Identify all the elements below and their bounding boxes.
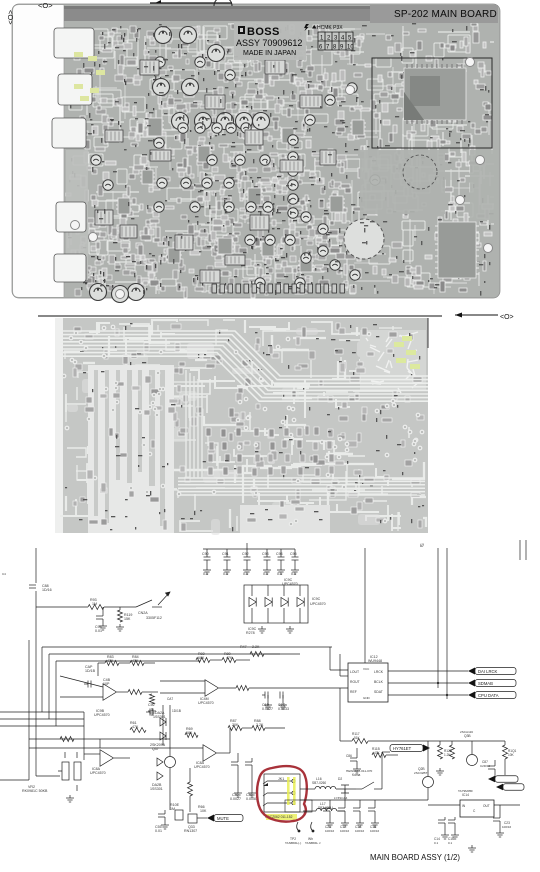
svg-text:1D/16: 1D/16 — [42, 588, 52, 592]
svg-text:0.1: 0.1 — [448, 841, 453, 845]
svg-text:TA79M05F: TA79M05F — [458, 789, 473, 793]
svg-text:C94: C94 — [276, 552, 283, 556]
svg-text:0.0033: 0.0033 — [278, 707, 289, 711]
svg-text:47K: 47K — [107, 659, 114, 663]
svg-text:0.01: 0.01 — [155, 829, 162, 833]
svg-text:OUT: OUT — [483, 804, 490, 808]
svg-text:1.2K: 1.2K — [444, 753, 451, 757]
svg-text:Q37: Q37 — [152, 747, 159, 751]
svg-text:100/16: 100/16 — [370, 829, 380, 833]
svg-text:10K: 10K — [508, 753, 515, 757]
svg-text:IC9C: IC9C — [312, 597, 321, 601]
svg-text:DAI LRCK: DAI LRCK — [478, 669, 498, 674]
svg-text:C2D/10: C2D/10 — [480, 764, 491, 768]
svg-text:1M: 1M — [170, 807, 175, 811]
svg-text:MAIN BOARD ASSY (1/2): MAIN BOARD ASSY (1/2) — [370, 853, 460, 862]
svg-text:UPC4570: UPC4570 — [198, 701, 214, 705]
svg-text:68K: 68K — [186, 731, 193, 735]
svg-text:68K: 68K — [198, 656, 205, 660]
svg-text:VCC: VCC — [363, 667, 370, 671]
svg-text:CA7: CA7 — [167, 697, 173, 701]
svg-text:LRCK: LRCK — [374, 670, 384, 674]
svg-text:20K: 20K — [232, 723, 239, 727]
svg-text:0.0050: 0.0050 — [246, 797, 257, 801]
svg-text:Kdma: Kdma — [352, 773, 361, 777]
svg-text:0.1: 0.1 — [291, 572, 296, 576]
svg-text:C4: C4 — [2, 572, 6, 576]
svg-text:C91: C91 — [222, 552, 229, 556]
svg-text:2SC32BT: 2SC32BT — [414, 771, 428, 775]
svg-text:C90: C90 — [202, 552, 209, 556]
svg-text:JK1: JK1 — [278, 777, 284, 781]
svg-text:100/16: 100/16 — [340, 829, 350, 833]
svg-text:C: C — [473, 809, 476, 813]
svg-text:0.0027: 0.0027 — [262, 707, 273, 711]
svg-text:100/16: 100/16 — [502, 825, 512, 829]
svg-text:0.01: 0.01 — [95, 629, 102, 633]
svg-text:LOUT: LOUT — [350, 670, 359, 674]
svg-text:R47: R47 — [240, 645, 247, 649]
svg-text:UPC4570: UPC4570 — [94, 713, 110, 717]
svg-text:0.1: 0.1 — [263, 572, 268, 576]
svg-text:100/16: 100/16 — [325, 829, 335, 833]
svg-text:WU9448: WU9448 — [368, 659, 382, 663]
svg-text:SB7-0260: SB7-0260 — [312, 781, 326, 785]
svg-text:TANB84L(-): TANB84L(-) — [285, 841, 301, 845]
svg-text:1D/1B: 1D/1B — [172, 709, 181, 713]
svg-text:CPU DATA: CPU DATA — [478, 693, 499, 698]
svg-text:GND: GND — [363, 696, 371, 700]
svg-text:0.1: 0.1 — [223, 572, 228, 576]
svg-text:CN2A: CN2A — [138, 611, 148, 615]
svg-text:MUTE: MUTE — [217, 816, 229, 821]
svg-text:1SS301: 1SS301 — [150, 787, 163, 791]
svg-text:2.2K: 2.2K — [256, 723, 264, 727]
svg-text:100/16: 100/16 — [355, 829, 365, 833]
svg-text:D2: D2 — [338, 777, 342, 781]
svg-text:2.2K: 2.2K — [252, 645, 260, 649]
svg-text:RK0981C 50KB: RK0981C 50KB — [22, 789, 48, 793]
svg-text:ROUT: ROUT — [350, 680, 360, 684]
svg-text:47K: 47K — [132, 725, 139, 729]
svg-text:3305F112: 3305F112 — [146, 616, 162, 620]
svg-text:LY3SCA4: LY3SCA4 — [334, 796, 348, 800]
svg-text:SDAT: SDAT — [374, 690, 383, 694]
svg-text:51K: 51K — [354, 736, 361, 740]
svg-text:IC14: IC14 — [462, 793, 469, 797]
svg-text:0.1: 0.1 — [243, 572, 248, 576]
svg-text:10P: 10P — [103, 682, 110, 686]
svg-text:Q3B: Q3B — [464, 734, 471, 738]
svg-text:C92: C92 — [242, 552, 249, 556]
svg-text:IN: IN — [462, 804, 466, 808]
svg-text:0.1: 0.1 — [434, 841, 439, 845]
svg-text:47K: 47K — [132, 659, 139, 663]
svg-text:1D/1B: 1D/1B — [85, 669, 96, 673]
svg-text:RN1307: RN1307 — [184, 829, 197, 833]
svg-text:1M: 1M — [92, 602, 97, 606]
svg-text:UPC4570: UPC4570 — [282, 582, 298, 586]
svg-text:R278: R278 — [246, 631, 255, 635]
svg-text:47K: 47K — [226, 656, 233, 660]
svg-text:TANB84L J: TANB84L J — [305, 841, 321, 845]
svg-text:2SK209A: 2SK209A — [150, 743, 166, 747]
svg-text:0.1: 0.1 — [277, 572, 282, 576]
svg-text:0.0027: 0.0027 — [230, 797, 241, 801]
svg-text:15K: 15K — [124, 617, 131, 621]
svg-text:10K: 10K — [200, 809, 207, 813]
svg-text:C86: C86 — [346, 754, 352, 758]
svg-text:UPC4570: UPC4570 — [310, 602, 326, 606]
svg-text:SDMAB: SDMAB — [478, 681, 493, 686]
svg-text:47K: 47K — [374, 751, 381, 755]
svg-text:UPC4570: UPC4570 — [194, 765, 210, 769]
svg-text:C52: C52 — [148, 703, 155, 707]
svg-text:UPC4570: UPC4570 — [90, 771, 106, 775]
svg-text:BCLK: BCLK — [374, 680, 384, 684]
svg-text:0.1: 0.1 — [203, 572, 208, 576]
svg-text:C93: C93 — [262, 552, 269, 556]
svg-text:///: /// — [420, 543, 425, 548]
svg-text:C95: C95 — [290, 552, 297, 556]
svg-text:REF: REF — [350, 690, 357, 694]
svg-text:2SCA116: 2SCA116 — [460, 730, 473, 734]
svg-text:1SS301: 1SS301 — [153, 715, 166, 719]
svg-text:HY761ET: HY761ET — [393, 746, 412, 751]
